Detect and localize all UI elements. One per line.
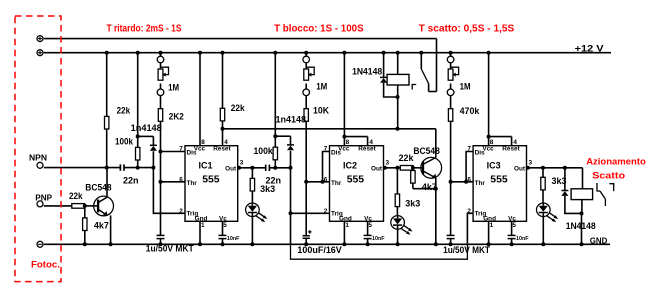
svg-text:5: 5 [223, 222, 227, 229]
svg-text:1n4148: 1n4148 [276, 115, 307, 125]
svg-text:Dis: Dis [187, 150, 197, 157]
svg-text:555: 555 [490, 174, 508, 185]
svg-text:Dis: Dis [331, 150, 341, 157]
svg-text:Out: Out [514, 165, 526, 172]
svg-text:Azionamento: Azionamento [586, 157, 646, 168]
svg-text:Scatto: Scatto [592, 171, 625, 182]
svg-text:PNP: PNP [35, 193, 52, 202]
svg-text:22k: 22k [117, 105, 131, 115]
svg-text:1n4148: 1n4148 [131, 123, 162, 133]
svg-text:T blocco: 1S - 100S: T blocco: 1S - 100S [274, 24, 364, 35]
svg-text:IC2: IC2 [343, 161, 357, 171]
svg-text:Thr: Thr [475, 180, 486, 187]
svg-text:1M: 1M [316, 82, 327, 92]
svg-text:470k: 470k [460, 106, 481, 116]
svg-text:22k: 22k [399, 153, 415, 163]
svg-text:Reset: Reset [213, 146, 231, 153]
svg-text:1N4148: 1N4148 [352, 66, 382, 76]
svg-text:1: 1 [490, 222, 494, 229]
svg-text:Out: Out [371, 165, 383, 172]
svg-text:2K2: 2K2 [169, 111, 184, 121]
svg-text:Thr: Thr [187, 180, 198, 187]
svg-text:10nF: 10nF [516, 236, 529, 242]
svg-text:IC1: IC1 [199, 161, 213, 171]
svg-text:Reset: Reset [502, 146, 520, 153]
svg-text:6: 6 [324, 176, 328, 183]
svg-text:BC548: BC548 [85, 183, 111, 193]
svg-text:5: 5 [512, 222, 516, 229]
svg-text:5: 5 [368, 222, 372, 229]
svg-text:IC3: IC3 [487, 161, 501, 171]
svg-text:3k3: 3k3 [552, 176, 567, 186]
svg-text:3: 3 [386, 159, 390, 166]
svg-text:8: 8 [490, 139, 494, 146]
svg-text:Reset: Reset [358, 146, 376, 153]
svg-text:10nF: 10nF [227, 236, 240, 242]
svg-text:10K: 10K [313, 106, 329, 116]
svg-text:10nF: 10nF [372, 236, 385, 242]
svg-text:22k: 22k [69, 191, 83, 201]
svg-text:8: 8 [201, 139, 205, 146]
svg-text:T scatto: 0,5S - 1,5S: T scatto: 0,5S - 1,5S [419, 24, 515, 35]
svg-text:Out: Out [225, 165, 237, 172]
svg-text:22k: 22k [231, 103, 246, 113]
svg-text:3: 3 [240, 159, 244, 166]
svg-text:555: 555 [347, 174, 365, 185]
svg-text:BC548: BC548 [413, 146, 439, 156]
svg-text:2: 2 [179, 208, 183, 215]
svg-text:1u/50V MKT: 1u/50V MKT [443, 245, 490, 255]
svg-text:4: 4 [224, 139, 228, 146]
svg-text:GND: GND [590, 237, 608, 246]
svg-text:6: 6 [467, 176, 471, 183]
svg-text:4: 4 [369, 139, 373, 146]
svg-text:+12 V: +12 V [575, 43, 604, 53]
svg-text:7: 7 [467, 145, 471, 152]
svg-text:6: 6 [179, 176, 183, 183]
svg-text:1N4148: 1N4148 [566, 221, 596, 231]
svg-text:Thr: Thr [331, 180, 342, 187]
svg-text:1M: 1M [460, 82, 471, 92]
svg-text:7: 7 [179, 145, 183, 152]
svg-text:1: 1 [201, 222, 205, 229]
svg-text:1u/50V MKT: 1u/50V MKT [146, 243, 194, 253]
svg-text:Fotoc.: Fotoc. [31, 260, 60, 270]
svg-text:4k7: 4k7 [422, 182, 437, 192]
svg-text:22n: 22n [123, 176, 139, 186]
svg-text:1M: 1M [168, 83, 179, 93]
svg-text:3k3: 3k3 [405, 199, 420, 209]
svg-text:4k7: 4k7 [94, 220, 109, 230]
svg-text:7: 7 [324, 145, 328, 152]
svg-text:3: 3 [529, 159, 533, 166]
svg-text:8: 8 [346, 139, 350, 146]
svg-text:Dis: Dis [475, 150, 485, 157]
svg-text:100k: 100k [115, 137, 134, 147]
svg-text:T ritardo: 2mS - 1S: T ritardo: 2mS - 1S [107, 24, 182, 35]
svg-text:100uF/16V: 100uF/16V [297, 245, 341, 255]
svg-text:22n: 22n [266, 176, 282, 186]
svg-text:4: 4 [513, 139, 517, 146]
svg-text:1: 1 [345, 222, 349, 229]
svg-text:NPN: NPN [29, 153, 47, 162]
svg-text:555: 555 [202, 174, 220, 185]
svg-text:100k: 100k [254, 146, 274, 156]
